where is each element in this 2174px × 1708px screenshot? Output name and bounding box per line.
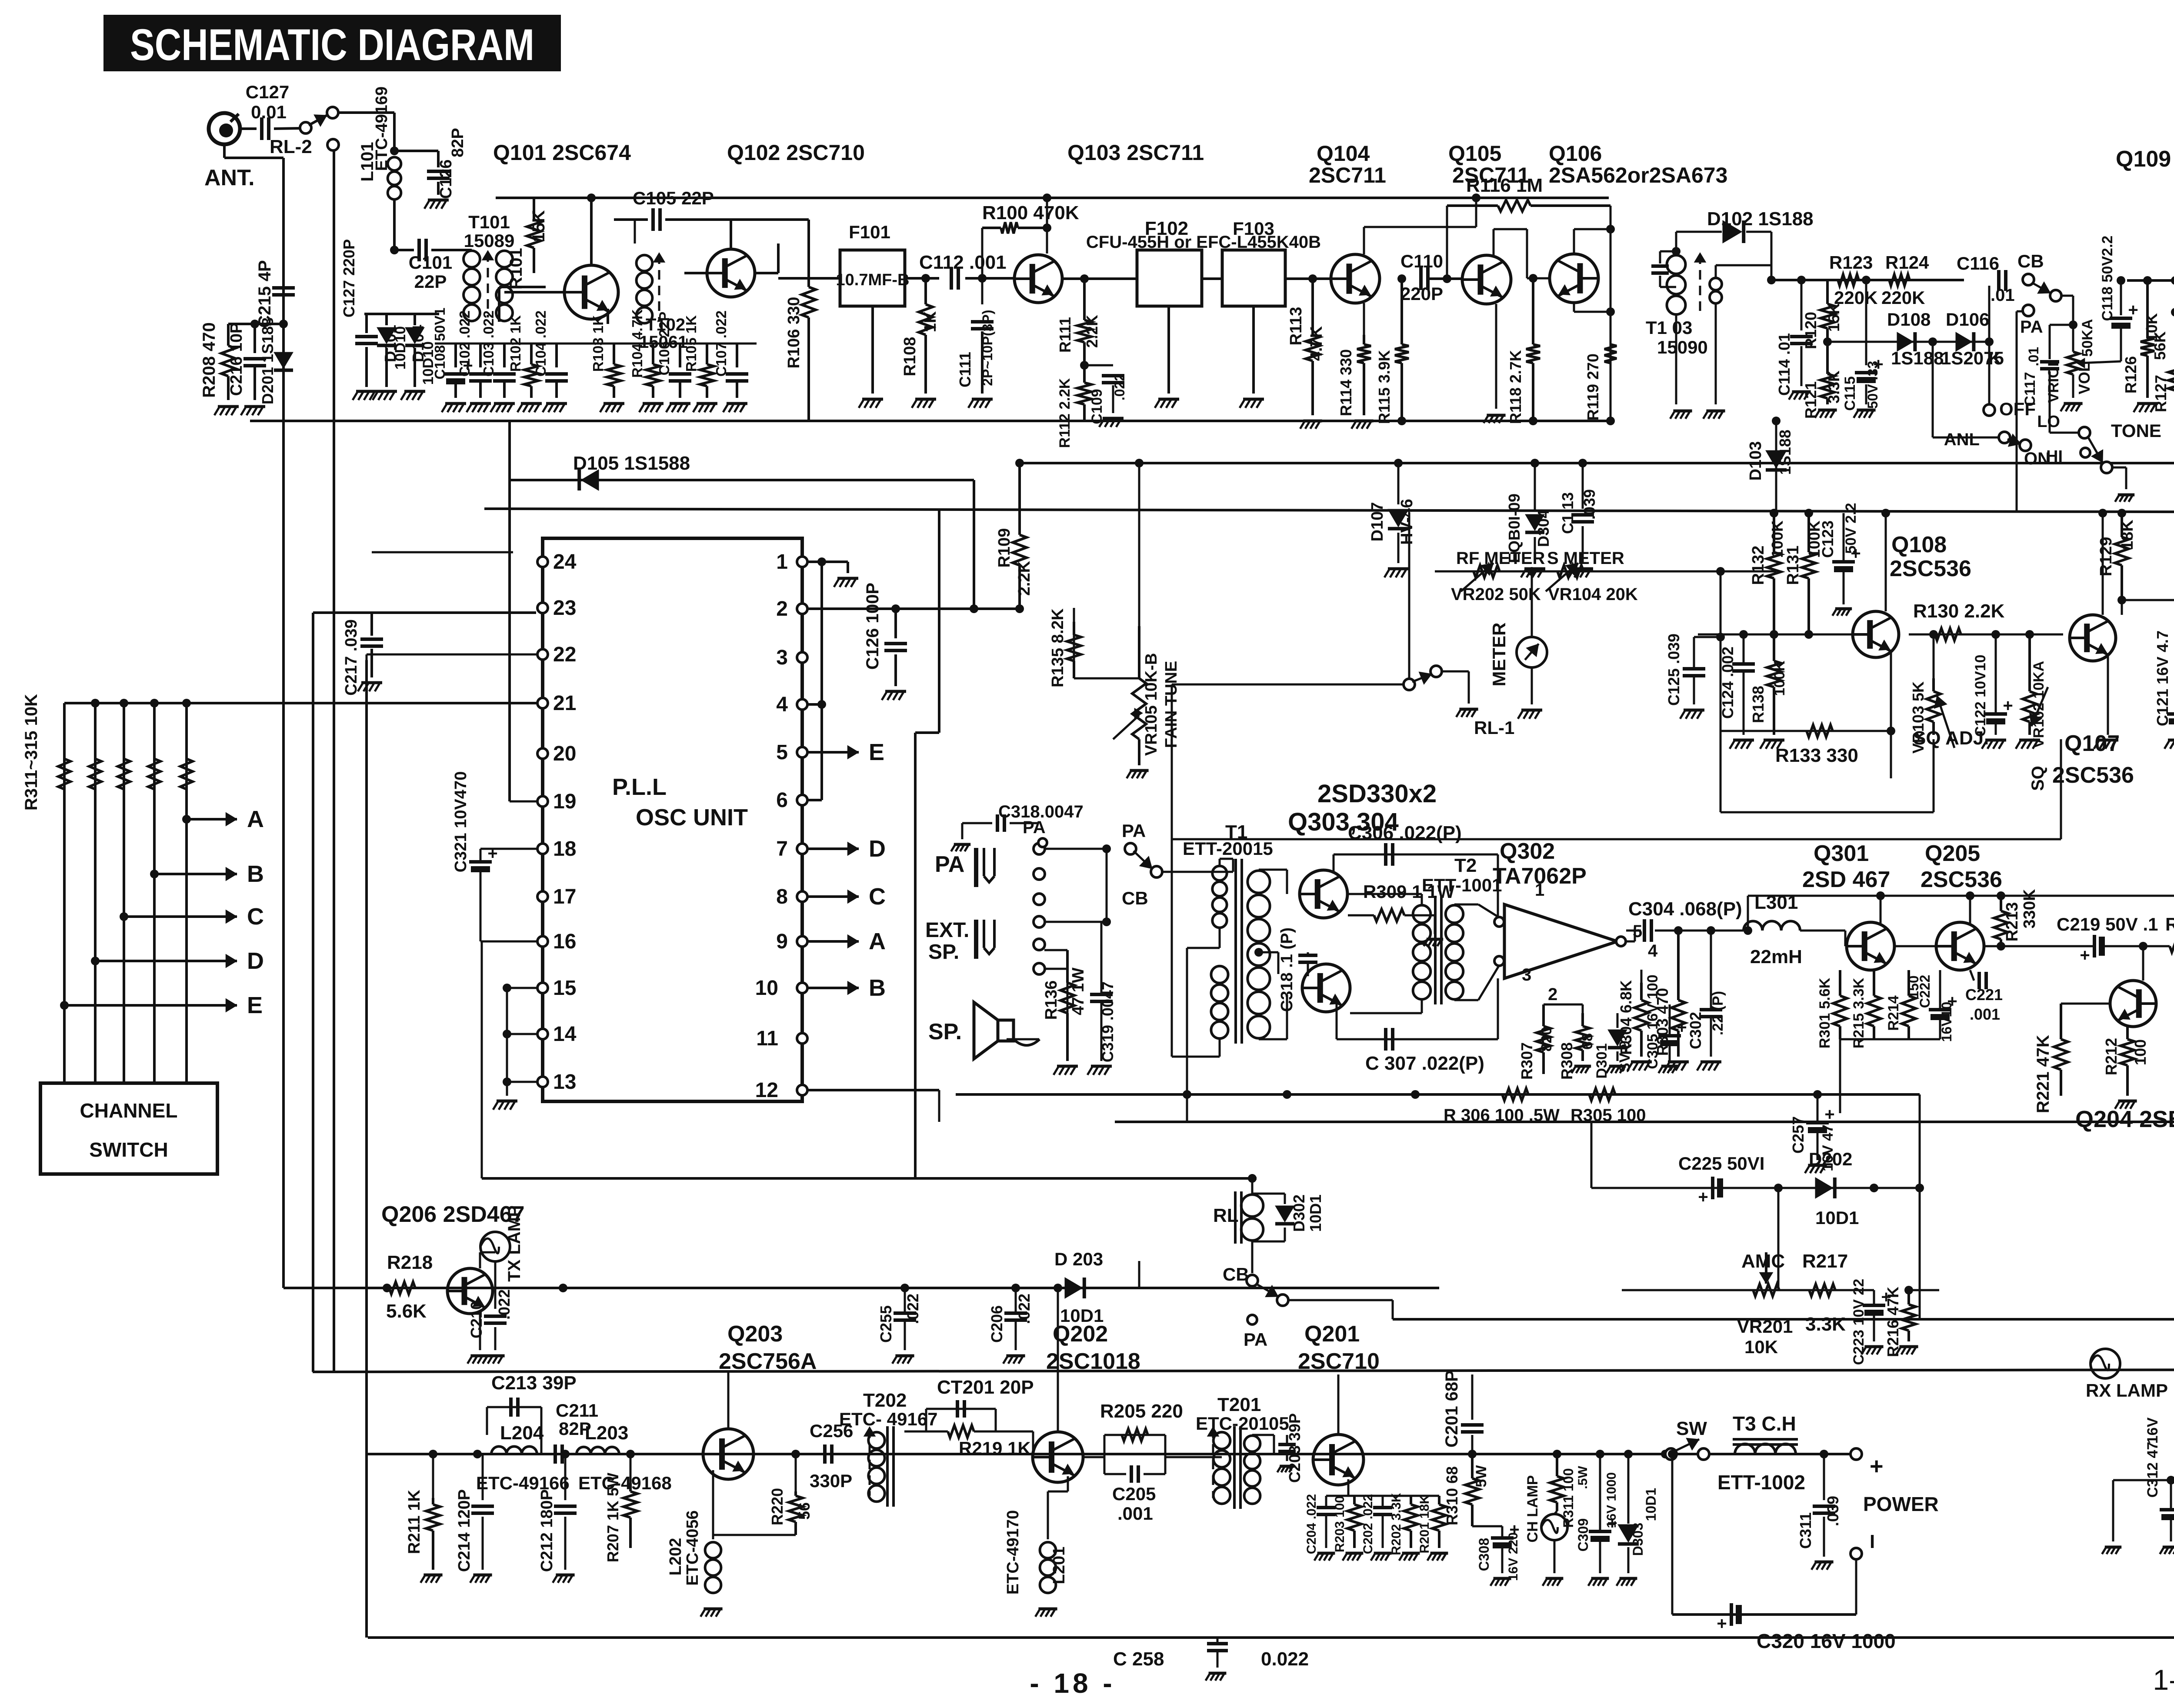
svg-text:C308: C308 [1476, 1538, 1492, 1571]
svg-text:VR202 50K: VR202 50K [1451, 585, 1541, 604]
svg-text:PA: PA [935, 852, 964, 877]
svg-text:ETC-20105: ETC-20105 [1196, 1413, 1289, 1434]
svg-text:Q107: Q107 [2064, 731, 2120, 756]
svg-text:+: + [2080, 946, 2090, 965]
svg-text:C101: C101 [409, 252, 452, 273]
svg-text:C127: C127 [246, 82, 289, 102]
svg-text:Q109 2SC536: Q109 2SC536 [2116, 147, 2174, 172]
svg-text:VR201: VR201 [1737, 1316, 1793, 1337]
svg-text:56K: 56K [2151, 331, 2169, 360]
svg-text:R219 1K: R219 1K [959, 1438, 1031, 1458]
svg-text:1-601 (Series 3): 1-601 (Series 3) [2153, 1664, 2174, 1696]
svg-text:14: 14 [553, 1023, 577, 1046]
svg-text:220K: 220K [1881, 287, 1925, 308]
svg-text:22: 22 [553, 643, 576, 666]
svg-text:ANL: ANL [1944, 430, 1980, 449]
svg-text:C214 120P: C214 120P [455, 1489, 473, 1572]
svg-text:C211: C211 [556, 1400, 598, 1421]
svg-text:50KA: 50KA [2079, 319, 2096, 357]
svg-text:T202: T202 [863, 1390, 907, 1411]
svg-text:C318 .1 (P): C318 .1 (P) [1278, 927, 1296, 1012]
svg-text:820: 820 [1538, 1027, 1555, 1052]
svg-text:R114 330: R114 330 [1337, 349, 1355, 416]
svg-text:L203: L203 [585, 1422, 628, 1444]
svg-text:A: A [247, 806, 264, 832]
svg-text:D105 1S1588: D105 1S1588 [573, 453, 690, 474]
svg-text:3.3K: 3.3K [1825, 370, 1843, 404]
svg-text:T201: T201 [1217, 1394, 1261, 1415]
svg-text:.5W: .5W [1576, 1466, 1590, 1489]
svg-text:.01: .01 [2026, 347, 2041, 366]
svg-text:CB: CB [1122, 888, 1148, 908]
svg-text:R214: R214 [1885, 995, 1902, 1031]
svg-text:2: 2 [776, 597, 788, 620]
svg-text:SCHEMATIC DIAGRAM: SCHEMATIC DIAGRAM [130, 20, 534, 70]
svg-text:C126 100P: C126 100P [863, 583, 882, 670]
svg-text:L201: L201 [1050, 1547, 1068, 1585]
svg-text:R215 3.3K: R215 3.3K [1851, 977, 1867, 1048]
svg-text:Q206 2SD467: Q206 2SD467 [381, 1202, 525, 1227]
svg-text:15090: 15090 [1657, 337, 1708, 357]
svg-text:C114 .01: C114 .01 [1775, 333, 1793, 396]
svg-text:C306 .022(P): C306 .022(P) [1348, 822, 1462, 844]
svg-text:16V 220: 16V 220 [1506, 1532, 1520, 1581]
svg-text:+: + [2003, 696, 2013, 715]
svg-text:16V10: 16V10 [1939, 1002, 1954, 1042]
svg-text:R307: R307 [1518, 1042, 1536, 1080]
svg-text:T101: T101 [468, 212, 510, 232]
svg-text:C116: C116 [1957, 253, 1999, 274]
svg-text:C1 13: C1 13 [1559, 492, 1577, 534]
svg-text:T1 03: T1 03 [1646, 317, 1692, 338]
svg-text:C: C [869, 884, 886, 910]
svg-text:ETT-1002: ETT-1002 [1717, 1471, 1805, 1494]
svg-text:C122 10V10: C122 10V10 [1972, 654, 1989, 737]
svg-text:1: 1 [1535, 881, 1544, 900]
svg-text:R100 470K: R100 470K [982, 202, 1079, 224]
svg-text:C201 68P: C201 68P [1442, 1370, 1461, 1448]
svg-text:.022: .022 [904, 1294, 922, 1324]
svg-text:C 307 .022(P): C 307 .022(P) [1365, 1053, 1484, 1074]
svg-text:VR102 10KA: VR102 10KA [2031, 661, 2047, 748]
svg-text:Q205: Q205 [1925, 841, 1980, 866]
svg-text:12: 12 [755, 1079, 778, 1102]
svg-text:330K: 330K [2021, 889, 2039, 928]
svg-text:2SC536: 2SC536 [2052, 763, 2134, 788]
svg-text:R118 2.7K: R118 2.7K [1507, 350, 1524, 424]
svg-text:C204 .022: C204 .022 [1304, 1494, 1319, 1554]
svg-text:23: 23 [553, 597, 576, 620]
svg-text:CB: CB [1223, 1264, 1249, 1284]
svg-text:R124: R124 [1885, 252, 1929, 273]
svg-text:A: A [869, 928, 886, 954]
svg-text:B: B [247, 861, 264, 887]
svg-text:R217: R217 [1802, 1251, 1848, 1272]
svg-text:C112 .001: C112 .001 [919, 252, 1007, 273]
svg-text:D: D [869, 836, 886, 862]
svg-text:2SD 467: 2SD 467 [1802, 867, 1890, 892]
svg-text:R135 8.2K: R135 8.2K [1049, 608, 1067, 687]
svg-text:R212: R212 [2102, 1038, 2120, 1075]
svg-text:17: 17 [553, 885, 576, 908]
svg-text:C304 .068(P): C304 .068(P) [1628, 898, 1742, 920]
svg-text:.001: .001 [1970, 1005, 2000, 1023]
svg-text:4: 4 [776, 693, 788, 716]
svg-text:R136: R136 [1042, 981, 1060, 1020]
svg-text:15K: 15K [1825, 303, 1843, 332]
svg-text:C: C [247, 904, 264, 930]
svg-text:R211 1K: R211 1K [405, 1490, 423, 1554]
svg-text:.001: .001 [1117, 1503, 1153, 1524]
svg-text:Q108: Q108 [1891, 532, 1947, 557]
svg-text:Q101 2SC674: Q101 2SC674 [493, 140, 631, 165]
svg-text:D202: D202 [1809, 1149, 1852, 1169]
svg-text:D302: D302 [1290, 1194, 1308, 1232]
svg-text:R138: R138 [1749, 686, 1767, 723]
svg-text:21: 21 [553, 692, 576, 715]
svg-text:+: + [487, 844, 497, 863]
svg-text:6: 6 [776, 789, 788, 812]
svg-text:D102 1S188: D102 1S188 [1707, 208, 1814, 230]
svg-text:SP.: SP. [928, 1019, 962, 1044]
svg-text:VR104 20K: VR104 20K [1548, 585, 1638, 604]
svg-text:PA: PA [1122, 821, 1146, 841]
svg-text:.039: .039 [1580, 489, 1598, 520]
svg-text:22mH: 22mH [1750, 946, 1802, 967]
svg-text:R301 5.6K: R301 5.6K [1817, 977, 1833, 1048]
svg-text:R221 47K: R221 47K [2034, 1035, 2053, 1113]
svg-text:SQ ADJ.: SQ ADJ. [1913, 727, 1989, 749]
svg-text:C105 22P: C105 22P [633, 188, 714, 208]
svg-text:C309: C309 [1575, 1518, 1591, 1552]
svg-text:R130 2.2K: R130 2.2K [1913, 600, 2005, 622]
svg-text:OSC UNIT: OSC UNIT [636, 804, 748, 831]
svg-text:PA: PA [2020, 317, 2043, 337]
svg-text:C205: C205 [1112, 1484, 1156, 1504]
svg-text:C255: C255 [877, 1305, 895, 1343]
svg-text:15061: 15061 [639, 333, 687, 352]
svg-text:2SC536: 2SC536 [1890, 556, 1971, 581]
svg-text:ON: ON [2024, 449, 2050, 468]
svg-text:CT201 20P: CT201 20P [937, 1377, 1034, 1398]
svg-text:R123: R123 [1829, 252, 1873, 273]
svg-text:C305 16V 100: C305 16V 100 [1644, 974, 1661, 1069]
svg-text:C213 39P: C213 39P [491, 1372, 577, 1394]
svg-text:3: 3 [776, 646, 788, 669]
svg-text:R220: R220 [768, 1488, 786, 1525]
svg-text:.022: .022 [1015, 1294, 1033, 1324]
svg-text:PA: PA [1244, 1329, 1267, 1350]
svg-text:Q302: Q302 [1500, 839, 1555, 864]
svg-text:C312 47: C312 47 [2144, 1442, 2161, 1498]
svg-text:RX LAMP: RX LAMP [2086, 1380, 2168, 1401]
svg-text:RL: RL [1213, 1205, 1239, 1226]
svg-text:C311: C311 [1797, 1512, 1814, 1549]
svg-text:16V 1000: 16V 1000 [1604, 1472, 1619, 1528]
svg-text:R126: R126 [2122, 356, 2140, 394]
svg-text:C109: C109 [1089, 389, 1105, 424]
svg-text:C110: C110 [1400, 251, 1443, 271]
svg-text:R208 470: R208 470 [200, 322, 219, 397]
svg-text:Q202: Q202 [1053, 1321, 1108, 1347]
svg-text:D303: D303 [1630, 1523, 1646, 1556]
svg-text:C321 10V470: C321 10V470 [452, 771, 470, 872]
svg-text:11: 11 [756, 1027, 778, 1050]
svg-text:5: 5 [776, 741, 788, 764]
svg-text:C125 .039: C125 .039 [1665, 634, 1683, 706]
svg-text:HV-46: HV-46 [1398, 499, 1416, 545]
svg-text:C221: C221 [1965, 986, 2003, 1004]
svg-text:I: I [1870, 1531, 1875, 1552]
svg-text:22P: 22P [414, 271, 447, 292]
svg-text:METER: METER [1489, 623, 1509, 687]
svg-text:R213: R213 [2003, 902, 2021, 942]
svg-text:B: B [869, 975, 886, 1001]
svg-text:ANT.: ANT. [204, 165, 255, 190]
svg-text:10K: 10K [1744, 1337, 1778, 1357]
svg-text:OFF: OFF [1999, 399, 2036, 419]
svg-text:R201 18K: R201 18K [1417, 1494, 1432, 1553]
svg-text:Q203: Q203 [727, 1321, 783, 1347]
svg-text:R305 100: R305 100 [1570, 1106, 1646, 1125]
svg-text:1S188: 1S188 [1776, 430, 1794, 475]
svg-text:R205 220: R205 220 [1100, 1401, 1183, 1422]
svg-text:R112 2.2K: R112 2.2K [1057, 378, 1073, 448]
svg-text:C127 220P: C127 220P [340, 239, 358, 317]
svg-text:C124 .002: C124 .002 [1719, 647, 1737, 719]
svg-text:F101: F101 [849, 222, 890, 242]
svg-text:R121: R121 [1802, 381, 1820, 419]
svg-text:R119 270: R119 270 [1584, 354, 1602, 420]
svg-text:D304: D304 [1534, 510, 1552, 547]
svg-text:100K: 100K [1768, 520, 1786, 558]
svg-text:LO: LO [2037, 413, 2060, 431]
svg-text:Q105: Q105 [1448, 141, 1501, 166]
svg-text:10D10: 10D10 [392, 326, 409, 370]
svg-text:0.01: 0.01 [251, 102, 287, 122]
svg-text:2SA562or2SA673: 2SA562or2SA673 [1549, 163, 1727, 187]
svg-text:2SC711: 2SC711 [1309, 163, 1386, 187]
svg-text:C216 10P: C216 10P [227, 322, 246, 396]
svg-text:R111: R111 [1056, 317, 1074, 353]
svg-text:SV-9: SV-9 [1617, 1041, 1633, 1073]
svg-text:C302: C302 [1687, 1012, 1704, 1049]
svg-text:R101: R101 [507, 248, 526, 290]
svg-text:16V: 16V [2144, 1417, 2161, 1444]
svg-text:POWER: POWER [1863, 1493, 1939, 1515]
svg-text:C111: C111 [956, 352, 974, 387]
svg-text:2SC1018: 2SC1018 [1046, 1349, 1140, 1374]
svg-text:R113: R113 [1287, 307, 1305, 346]
svg-text:T2: T2 [1454, 855, 1477, 876]
svg-text:ETC-4056: ETC-4056 [684, 1510, 702, 1585]
svg-text:C202 .022: C202 .022 [1361, 1494, 1375, 1554]
svg-text:RF METER: RF METER [1456, 549, 1545, 568]
svg-text:CH LAMP: CH LAMP [1524, 1475, 1541, 1543]
svg-text:R131: R131 [1784, 546, 1802, 585]
svg-text:D108: D108 [1887, 309, 1931, 330]
svg-text:RL-2: RL-2 [270, 136, 312, 157]
svg-text:R210 2.2K: R210 2.2K [2165, 914, 2174, 934]
svg-text:4.7K: 4.7K [1307, 326, 1326, 361]
svg-text:330P: 330P [810, 1471, 852, 1491]
svg-text:5W: 5W [1473, 1465, 1490, 1488]
svg-text:D301: D301 [1594, 1043, 1610, 1078]
svg-text:+: + [1677, 1018, 1687, 1037]
svg-text:2.2K: 2.2K [1015, 560, 1034, 596]
svg-text:P.L.L: P.L.L [612, 774, 667, 800]
svg-text:+: + [1870, 1453, 1884, 1479]
svg-text:Q103 2SC711: Q103 2SC711 [1067, 140, 1204, 165]
svg-text:F103: F103 [1233, 218, 1274, 239]
svg-text:+: + [1698, 1188, 1708, 1207]
svg-text:EXT.: EXT. [925, 919, 969, 942]
svg-text:2SC711: 2SC711 [1452, 163, 1530, 187]
svg-text:C121 16V 4.7: C121 16V 4.7 [2154, 630, 2171, 726]
svg-text:D103: D103 [1747, 441, 1765, 481]
svg-text:10D1: 10D1 [1643, 1488, 1659, 1521]
svg-text:S METER: S METER [1547, 549, 1624, 568]
svg-text:50V .33: 50V .33 [1865, 361, 1881, 409]
svg-text:10: 10 [755, 977, 778, 1000]
svg-text:18K: 18K [2118, 520, 2137, 550]
svg-text:.01: .01 [1991, 286, 2015, 305]
svg-text:4: 4 [1648, 941, 1658, 961]
svg-text:R108: R108 [901, 337, 919, 377]
svg-text:C225 50VI: C225 50VI [1678, 1153, 1764, 1174]
svg-text:E: E [247, 992, 263, 1018]
svg-text:C319 .0047: C319 .0047 [1099, 981, 1117, 1062]
svg-text:R133 330: R133 330 [1775, 745, 1858, 766]
svg-text:.039: .039 [1824, 1496, 1842, 1526]
svg-text:R311~315 10K: R311~315 10K [22, 694, 41, 811]
svg-text:R120: R120 [1802, 312, 1820, 349]
svg-text:C118 50V2.2: C118 50V2.2 [2099, 236, 2116, 321]
svg-text:CHANNEL: CHANNEL [80, 1099, 178, 1122]
svg-text:2P~10P(3P): 2P~10P(3P) [980, 310, 995, 386]
svg-text:16: 16 [553, 930, 576, 953]
svg-text:R207 1K 5W: R207 1K 5W [604, 1473, 622, 1562]
svg-text:10.7MF-B: 10.7MF-B [836, 271, 910, 289]
svg-text:1K: 1K [921, 311, 940, 332]
svg-text:15K: 15K [529, 210, 548, 242]
svg-text:3: 3 [1522, 965, 1531, 984]
svg-text:C126: C126 [437, 160, 455, 199]
svg-text:C320 16V 1000: C320 16V 1000 [1757, 1630, 1896, 1652]
svg-text:C222: C222 [1917, 975, 1933, 1008]
svg-text:Q301: Q301 [1814, 841, 1869, 866]
svg-text:C219 50V .1: C219 50V .1 [2057, 914, 2158, 934]
svg-text:ETC- 49167: ETC- 49167 [839, 1409, 937, 1429]
svg-text:13: 13 [553, 1071, 576, 1094]
svg-text:1S188: 1S188 [1891, 348, 1944, 368]
svg-text:R308: R308 [1558, 1042, 1576, 1080]
svg-text:1: 1 [776, 550, 788, 574]
svg-text:20: 20 [553, 742, 576, 765]
svg-text:R 306 100 .5W: R 306 100 .5W [1444, 1106, 1560, 1125]
svg-text:56: 56 [795, 1502, 813, 1520]
svg-text:D201 1S188: D201 1S188 [259, 317, 277, 404]
svg-text:L204: L204 [500, 1422, 544, 1444]
svg-text:R129: R129 [2097, 537, 2115, 577]
svg-text:7: 7 [776, 837, 788, 861]
svg-text:+: + [1824, 1105, 1834, 1124]
svg-text:24: 24 [553, 550, 577, 574]
svg-text:R310 68: R310 68 [1443, 1466, 1461, 1525]
svg-text:R202 3.3K: R202 3.3K [1389, 1493, 1404, 1555]
svg-text:100: 100 [2131, 1039, 2149, 1065]
svg-text:2: 2 [1548, 985, 1557, 1004]
svg-text:.022: .022 [1112, 374, 1127, 400]
svg-text:Q201: Q201 [1304, 1321, 1360, 1347]
svg-text:C257: C257 [1789, 1116, 1807, 1154]
svg-text:SWITCH: SWITCH [89, 1138, 168, 1161]
svg-text:C212 180P: C212 180P [538, 1489, 556, 1572]
svg-text:0.022: 0.022 [1261, 1648, 1309, 1670]
svg-text:ETT-1001: ETT-1001 [1422, 875, 1502, 895]
svg-text:VR105 10K-B: VR105 10K-B [1142, 653, 1160, 756]
svg-text:E: E [869, 739, 884, 765]
svg-text:K: K [1988, 348, 2001, 368]
svg-text:D107: D107 [1368, 502, 1387, 542]
svg-text:ETT-20015: ETT-20015 [1183, 838, 1273, 859]
svg-text:C223 10V 22: C223 10V 22 [1851, 1279, 1867, 1365]
svg-text:VOL: VOL [2075, 362, 2093, 394]
svg-text:8: 8 [776, 885, 788, 908]
svg-text:R109: R109 [995, 528, 1014, 568]
svg-text:CB: CB [2017, 251, 2044, 271]
svg-text:47 1W: 47 1W [1069, 967, 1087, 1015]
svg-text:2.2K: 2.2K [1083, 315, 1101, 348]
svg-text:SP.: SP. [928, 941, 959, 964]
svg-text:C318.0047: C318.0047 [998, 802, 1084, 821]
svg-text:10D1: 10D1 [1307, 1194, 1324, 1232]
svg-text:D106: D106 [1946, 309, 1989, 330]
svg-text:SW: SW [1676, 1418, 1707, 1439]
svg-text:- 18 -: - 18 - [1030, 1668, 1115, 1699]
svg-text:C206: C206 [988, 1305, 1006, 1343]
svg-text:C 258: C 258 [1113, 1648, 1164, 1670]
svg-text:Q204 2SB561: Q204 2SB561 [2075, 1106, 2174, 1132]
svg-text:T3 C.H: T3 C.H [1733, 1412, 1796, 1435]
svg-text:R132: R132 [1749, 546, 1767, 585]
svg-text:R203 100: R203 100 [1333, 1496, 1347, 1552]
svg-text:.22 (P): .22 (P) [1710, 991, 1726, 1035]
svg-text:19: 19 [553, 790, 576, 813]
svg-text:10D1: 10D1 [1815, 1208, 1859, 1228]
svg-text:Q106: Q106 [1549, 141, 1602, 166]
svg-text:C115: C115 [1842, 376, 1858, 410]
svg-text:T102: T102 [646, 315, 685, 334]
svg-text:C123: C123 [1819, 520, 1837, 558]
svg-text:SQ: SQ [2028, 766, 2047, 791]
svg-text:220P: 220P [1400, 284, 1443, 304]
svg-text:R216 47K: R216 47K [1884, 1287, 1902, 1357]
svg-text:9: 9 [776, 930, 788, 953]
svg-text:R127: R127 [2152, 375, 2170, 412]
svg-text:3.3K: 3.3K [1805, 1314, 1846, 1335]
svg-text:ETC-49169: ETC-49169 [373, 87, 391, 171]
svg-text:2SC536: 2SC536 [1921, 867, 2002, 892]
svg-text:2SD330x2: 2SD330x2 [1317, 780, 1437, 808]
svg-text:50V 2.2: 50V 2.2 [1843, 503, 1859, 554]
svg-text:AMC: AMC [1741, 1251, 1785, 1272]
svg-text:RL-1: RL-1 [1474, 717, 1514, 738]
svg-text:ETC-49170: ETC-49170 [1004, 1510, 1022, 1595]
svg-text:L202: L202 [667, 1538, 685, 1576]
svg-text:15: 15 [553, 977, 576, 1000]
svg-text:Q102 2SC710: Q102 2SC710 [727, 140, 865, 165]
